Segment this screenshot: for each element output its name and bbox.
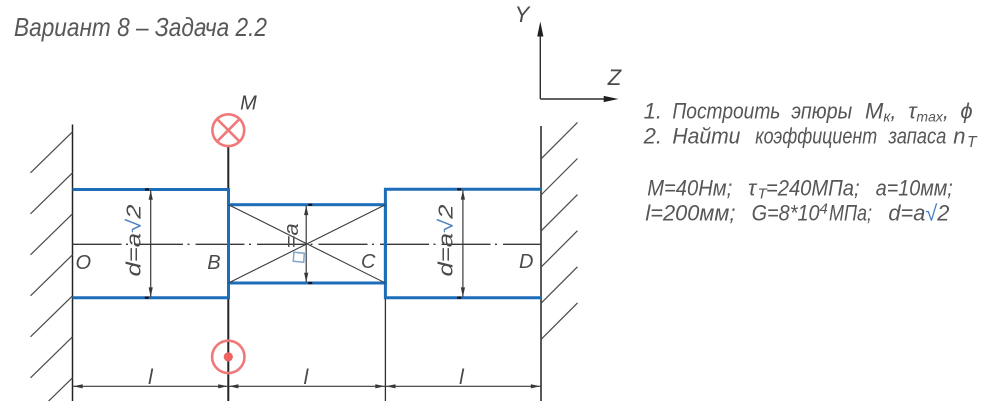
extension line through B (moment line) [227, 146, 229, 401]
svg-text:эпюры: эпюры [791, 99, 852, 124]
svg-text:Мк,: Мк, [865, 99, 897, 126]
svg-text:Y: Y [515, 2, 531, 27]
hatching left wall [31, 132, 73, 401]
svg-text:d=a√2: d=a√2 [124, 205, 146, 277]
wall line right [540, 126, 542, 401]
dimension a middle segment [305, 206, 307, 282]
shaft segment C-D (blue) [385, 189, 541, 297]
svg-text:Z: Z [607, 65, 623, 90]
svg-text:n: n [953, 124, 965, 149]
svg-text:запаса: запаса [888, 124, 947, 149]
hatching right wall [541, 122, 578, 339]
svg-text:4: 4 [820, 201, 828, 218]
Y axis [539, 35, 541, 99]
svg-text:d=a√2: d=a√2 [436, 205, 458, 277]
centerline (dash-dot axis) [73, 243, 542, 245]
dimension d right segment [462, 190, 464, 296]
svg-text:M: M [240, 93, 257, 115]
svg-text:Построить: Построить [672, 99, 780, 124]
svg-text:Т: Т [967, 134, 978, 151]
svg-text:МПа;: МПа; [829, 201, 872, 226]
svg-text:коэффициент: коэффициент [755, 124, 877, 149]
task text line 2 [643, 124, 978, 151]
Z axis [540, 98, 605, 100]
data text line 1 [647, 175, 953, 202]
svg-text:ϕ: ϕ [960, 99, 972, 124]
moment symbol top (into page) [212, 114, 244, 146]
dimension d left segment [150, 191, 152, 297]
svg-text:O: O [76, 252, 92, 274]
svg-text:Найти: Найти [672, 124, 740, 149]
svg-text:B: B [207, 252, 220, 274]
tick marks on shaft edges at dimension contacts [145, 189, 461, 297]
extension line at C [384, 298, 386, 401]
diagonals of middle segment [229, 205, 386, 283]
dimension line bottom [73, 385, 542, 387]
svg-text:a=10мм;: a=10мм; [876, 175, 953, 200]
square symbol of label [293, 252, 304, 262]
shaft segment O-B (blue) [73, 190, 229, 298]
svg-text:G=8*10: G=8*10 [752, 201, 821, 226]
wall line left [72, 125, 74, 401]
svg-text:=a: =a [281, 223, 303, 248]
moment symbol bottom (out of page) [212, 341, 244, 373]
svg-text:D: D [519, 251, 533, 273]
svg-text:=240МПа;: =240МПа; [766, 175, 860, 200]
svg-text:Вариант 8 – Задача 2.2: Вариант 8 – Задача 2.2 [14, 12, 267, 42]
svg-text:l=200мм;: l=200мм; [645, 201, 735, 226]
svg-text:1.: 1. [644, 99, 662, 124]
svg-text:M=40Нм;: M=40Нм; [647, 175, 732, 200]
arrowheads bottom dimension [73, 384, 540, 388]
task text line 1 [644, 99, 973, 126]
svg-text:2.: 2. [643, 124, 662, 149]
svg-text:C: C [361, 251, 376, 273]
shaft segment B-C (blue, square section) [229, 205, 386, 283]
data text line 2 [645, 201, 949, 226]
svg-text:d=a√2: d=a√2 [888, 201, 949, 226]
